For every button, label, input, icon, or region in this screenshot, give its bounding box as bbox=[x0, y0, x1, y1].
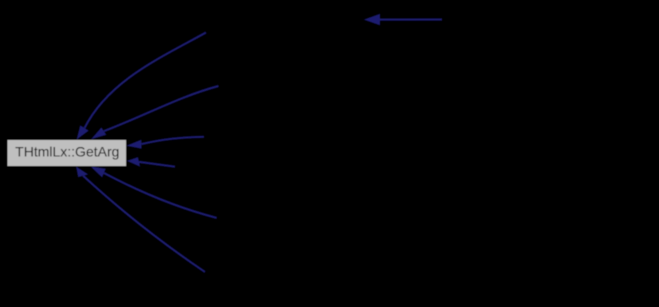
node THtmlLx::GetArg bbox=[7, 140, 127, 167]
svg-text:THtmlLx::GetArg: THtmlLx::GetArg bbox=[15, 144, 119, 160]
wire: caller edge D (straight into box right, upper) bbox=[126, 137, 204, 149]
wire: caller edge B (inner curve into box top) bbox=[91, 86, 219, 139]
wire: caller edge F (outer curve into box bottom) bbox=[76, 167, 205, 273]
wire: caller edge G (inner curve into box bottom) bbox=[91, 167, 217, 218]
wire: caller edge E (short straight into box right, lower) bbox=[127, 157, 175, 167]
wire: caller edge A (outer curve into box top) bbox=[77, 33, 206, 140]
wire: standalone edge between hidden nodes (top) bbox=[364, 14, 442, 26]
